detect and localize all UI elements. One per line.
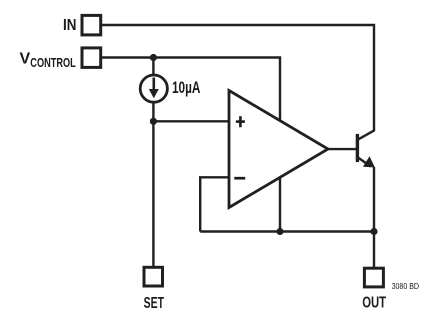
wire: inverting input feedback xyxy=(200,177,229,231)
svg-text:SET: SET xyxy=(144,295,165,312)
node: emitter rail junction xyxy=(370,228,377,235)
svg-text:CONTROL: CONTROL xyxy=(30,55,76,70)
wire: VCONTROL rail to op-amp bias (top) xyxy=(102,58,280,122)
wire: VCONTROL node down to current source xyxy=(152,58,154,76)
wire: op-amp output to transistor base xyxy=(328,148,356,150)
wire: op-amp bottom to rail xyxy=(279,178,281,232)
terminal OUT xyxy=(364,268,383,287)
op-amp U1 xyxy=(229,91,328,208)
terminal SET xyxy=(144,267,163,286)
svg-text:10µA: 10µA xyxy=(172,79,201,97)
svg-text:V: V xyxy=(20,51,31,68)
op-amp minus sign xyxy=(234,177,245,180)
wire: IN rail to transistor collector xyxy=(102,25,374,131)
label VCONTROL xyxy=(20,51,76,71)
svg-text:OUT: OUT xyxy=(362,294,386,311)
terminal IN xyxy=(82,15,101,35)
transistor Q1 xyxy=(356,130,375,167)
terminal VCONTROL xyxy=(82,48,101,68)
svg-text:3080 BD: 3080 BD xyxy=(392,281,419,291)
node: noninverting input junction xyxy=(150,118,157,125)
current source I1 xyxy=(140,75,167,102)
node: op-amp bottom rail junction xyxy=(276,228,283,235)
svg-text:IN: IN xyxy=(63,17,76,34)
node: VCONTROL junction xyxy=(150,54,157,61)
wire: current source to SET terminal xyxy=(152,103,154,267)
op-amp plus sign xyxy=(236,116,245,127)
wire: emitter to OUT terminal xyxy=(373,167,375,267)
wire: bottom rail xyxy=(200,230,374,232)
wire: noninverting input xyxy=(153,120,229,122)
